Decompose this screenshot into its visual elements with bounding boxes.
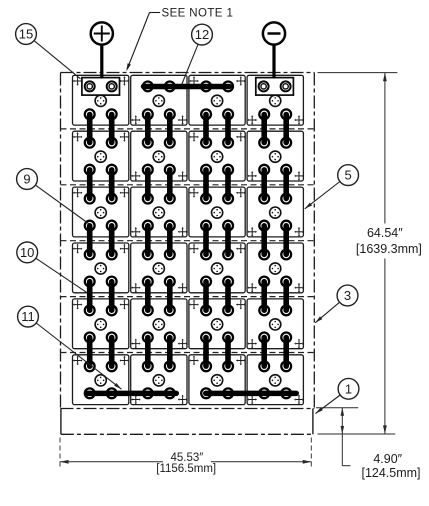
polarity mark + row4 col4 right (294, 283, 304, 293)
polarity mark + row1 col2 left (131, 115, 141, 125)
inter-row connector strap rows2-3 col4 R (281, 165, 291, 204)
balloon callout 11 with leader (18, 306, 122, 389)
polarity mark + row2 col2 left (131, 171, 141, 181)
battery module row3 col3 (189, 187, 245, 237)
svg-text:12: 12 (195, 27, 209, 42)
svg-text:1: 1 (345, 381, 352, 396)
output terminal plate row1 col4 (256, 78, 294, 96)
polarity mark + row3 col3 left (189, 188, 199, 198)
inter-row connector strap rows4-5 col3 L (201, 277, 211, 316)
vent cap row2 col2 (153, 151, 164, 162)
extension line top for 64.54 dimension (318, 72, 398, 74)
positive terminal lead and + symbol (91, 22, 113, 78)
svg-text:64.54″: 64.54″ (367, 226, 403, 240)
svg-text:[1639.3mm]: [1639.3mm] (356, 242, 422, 256)
polarity mark + row2 col3 left (189, 132, 199, 142)
polarity mark + row5 col1 left (73, 300, 83, 310)
battery module row5 col1 (73, 299, 129, 349)
polarity mark + row1 col3 right (236, 76, 246, 86)
polarity mark + row3 col4 right (294, 227, 304, 237)
inter-row connector strap rows2-3 col2 L (143, 165, 153, 204)
inter-row connector strap rows1-2 col2 R (165, 109, 175, 147)
vent cap row1 col1 (95, 95, 106, 106)
battery module row5 col2 (131, 299, 187, 349)
vent cap row4 col4 (270, 263, 281, 274)
inter-row connector strap rows5-6 col3 R (223, 333, 233, 372)
balloon callout 3 with leader (315, 285, 358, 323)
vent cap row5 col3 (212, 319, 223, 330)
inter-row connector strap rows2-3 col3 L (201, 165, 211, 204)
polarity mark + row4 col2 right (178, 283, 188, 293)
battery module row6 col3 (189, 355, 245, 405)
vent cap row1 col4 (270, 95, 281, 106)
polarity mark + row5 col3 left (189, 300, 199, 310)
rack shelf line 5 (dashed) (61, 352, 315, 354)
inter-row connector strap rows5-6 col2 L (143, 333, 153, 372)
vent cap row4 col2 (153, 263, 164, 274)
vent cap row4 col3 (212, 263, 223, 274)
battery module row4 col2 (131, 243, 187, 293)
svg-text:[124.5mm]: [124.5mm] (361, 466, 420, 480)
battery module row6 col1 (73, 355, 129, 405)
svg-text:15: 15 (19, 27, 33, 42)
inter-row connector strap rows3-4 col3 R (223, 221, 233, 260)
polarity mark + row3 col3 right (236, 188, 246, 198)
polarity mark + row2 col1 left (73, 132, 83, 142)
polarity mark + row6 col2 right (178, 395, 188, 405)
polarity mark + row4 col3 right (236, 244, 246, 254)
polarity mark + row3 col2 left (131, 227, 141, 237)
inter-row connector strap rows1-2 col2 L (143, 109, 153, 147)
svg-text:3: 3 (344, 288, 351, 303)
battery cabinet outline top (phantom line) (61, 72, 315, 74)
polarity mark + row1 col4 right (294, 115, 304, 125)
battery module row4 col4 (247, 243, 303, 293)
inter-row connector strap rows5-6 col3 L (201, 333, 211, 372)
vent cap row2 col4 (270, 151, 281, 162)
vent cap row5 col1 (95, 319, 106, 330)
vent cap row5 col4 (270, 319, 281, 330)
vent cap row2 col3 (212, 151, 223, 162)
battery module row6 col2 (131, 355, 187, 405)
polarity mark + row6 col2 left (131, 395, 141, 405)
battery cabinet outline left wall (phantom line) (60, 73, 62, 409)
svg-text:11: 11 (21, 309, 35, 324)
polarity mark + row5 col2 right (178, 339, 188, 349)
polarity mark + row2 col3 right (236, 132, 246, 142)
polarity mark + row2 col4 right (294, 171, 304, 181)
battery module row4 col3 (189, 243, 245, 293)
battery stand left leg (60, 409, 62, 435)
polarity mark + row6 col4 left (247, 395, 257, 405)
polarity mark + row1 col3 left (189, 76, 199, 86)
polarity mark + row3 col2 right (178, 227, 188, 237)
inter-row connector strap rows2-3 col2 R (165, 165, 175, 204)
polarity mark + row6 col3 right (236, 356, 246, 366)
inter-row connector strap rows1-2 col1 L (85, 109, 95, 147)
inter-row connector strap rows3-4 col1 L (85, 221, 95, 260)
battery module row1 col4 (247, 75, 303, 125)
battery module row2 col4 (247, 131, 303, 181)
inter-row connector strap rows1-2 col3 R (223, 109, 233, 147)
battery module row2 col1 (73, 131, 129, 181)
inter-row connector strap rows5-6 col1 R (107, 333, 117, 372)
vent cap row6 col2 (153, 375, 164, 386)
inter-row connector strap rows1-2 col4 R (281, 109, 291, 147)
battery cabinet outline right wall (phantom line) (313, 73, 315, 409)
svg-text:10: 10 (20, 245, 34, 260)
polarity mark + row5 col3 right (236, 300, 246, 310)
polarity mark + row3 col1 left (73, 188, 83, 198)
battery module row2 col2 (131, 131, 187, 181)
inter-row connector strap rows1-2 col1 R (107, 109, 117, 147)
polarity mark + row6 col1 left (73, 356, 83, 366)
row1 inter-module jumper strap (141, 82, 233, 92)
polarity mark + row3 col1 right (120, 188, 130, 198)
vent cap row6 col1 (95, 375, 106, 386)
svg-text:9: 9 (23, 172, 30, 187)
battery module row6 col4 (247, 355, 303, 405)
polarity mark + row1 col1 right (120, 76, 130, 86)
inter-row connector strap rows5-6 col1 L (85, 333, 95, 372)
battery module row3 col2 (131, 187, 187, 237)
battery module row4 col1 (73, 243, 129, 293)
polarity mark + row1 col4 left (247, 115, 257, 125)
inter-row connector strap rows4-5 col1 L (85, 277, 95, 316)
rack shelf line 2 (dashed) (61, 184, 315, 186)
vent cap row3 col2 (153, 207, 164, 218)
vent cap row5 col2 (153, 319, 164, 330)
polarity mark + row6 col1 right (120, 356, 130, 366)
polarity mark + row2 col4 left (247, 171, 257, 181)
rack shelf line 4 (dashed) (61, 296, 315, 298)
balloon callout 5 with leader (305, 165, 359, 209)
vent cap row6 col4 (270, 375, 281, 386)
balloon callout 10 with leader (17, 242, 87, 292)
battery module row3 col1 (73, 187, 129, 237)
polarity mark + row1 col1 left (73, 76, 83, 86)
inter-row connector strap rows1-2 col3 L (201, 109, 211, 147)
battery module row5 col4 (247, 299, 303, 349)
balloon callout 15 with leader (16, 24, 81, 79)
inter-row connector strap rows5-6 col2 R (165, 333, 175, 372)
battery stand right leg (312, 409, 314, 435)
battery module row2 col3 (189, 131, 245, 181)
polarity mark + row5 col4 left (247, 339, 257, 349)
row6 bottom jumper strap left (85, 388, 179, 398)
inter-row connector strap rows4-5 col1 R (107, 277, 117, 316)
inter-row connector strap rows2-3 col1 L (85, 165, 95, 204)
vent cap row1 col3 (212, 95, 223, 106)
svg-text:4.90″: 4.90″ (373, 452, 402, 466)
inter-row connector strap rows2-3 col3 R (223, 165, 233, 204)
polarity mark + row5 col2 left (131, 339, 141, 349)
inter-row connector strap rows3-4 col4 R (281, 221, 291, 260)
battery module row5 col3 (189, 299, 245, 349)
inter-row connector strap rows3-4 col1 R (107, 221, 117, 260)
inter-row connector strap rows3-4 col4 L (259, 221, 269, 260)
inter-row connector strap rows2-3 col1 R (107, 165, 117, 204)
polarity mark + row2 col1 right (120, 132, 130, 142)
polarity mark + row2 col2 right (178, 171, 188, 181)
svg-text:SEE NOTE 1: SEE NOTE 1 (162, 8, 234, 20)
inter-row connector strap rows3-4 col3 L (201, 221, 211, 260)
inter-row connector strap rows3-4 col2 L (143, 221, 153, 260)
output terminal plate row1 col1 (82, 78, 120, 96)
SEE NOTE 1 label and leader arrow (126, 8, 233, 72)
vertical dimension 4.90in / 124.5mm base height (316, 408, 421, 480)
negative terminal lead and - symbol (263, 22, 285, 78)
vent cap row6 col3 (212, 375, 223, 386)
polarity mark + row1 col2 right (178, 115, 188, 125)
balloon callout 12 with leader (182, 24, 213, 85)
inter-row connector strap rows5-6 col4 L (259, 333, 269, 372)
polarity mark + row4 col4 left (247, 283, 257, 293)
polarity mark + row4 col2 left (131, 283, 141, 293)
inter-row connector strap rows1-2 col4 L (259, 109, 269, 147)
inter-row connector strap rows4-5 col2 R (165, 277, 175, 316)
battery module row1 col1 (73, 75, 129, 125)
polarity mark + row6 col4 right (294, 395, 304, 405)
battery cabinet outline bottom / base top (phantom line) (61, 408, 315, 410)
polarity mark + row5 col1 right (120, 300, 130, 310)
svg-text:5: 5 (344, 168, 351, 183)
vent cap row3 col1 (95, 207, 106, 218)
battery stand bottom edge (phantom line) (61, 433, 313, 435)
inter-row connector strap rows4-5 col2 L (143, 277, 153, 316)
balloon callout 9 with leader (17, 169, 89, 224)
battery module row3 col4 (247, 187, 303, 237)
vertical dimension 64.54in / 1639.3mm (356, 73, 422, 434)
rack shelf line 3 (dashed) (61, 240, 315, 242)
battery module row1 col2 (131, 75, 187, 125)
vent cap row4 col1 (95, 263, 106, 274)
svg-text:[1156.5mm]: [1156.5mm] (156, 463, 216, 475)
polarity mark + row3 col4 left (247, 227, 257, 237)
vent cap row3 col4 (270, 207, 281, 218)
inter-row connector strap rows4-5 col3 R (223, 277, 233, 316)
rack shelf line 1 (dashed) (61, 128, 315, 130)
inter-row connector strap rows3-4 col2 R (165, 221, 175, 260)
vent cap row1 col2 (153, 95, 164, 106)
polarity mark + row4 col1 right (120, 244, 130, 254)
vent cap row3 col3 (212, 207, 223, 218)
polarity mark + row4 col1 left (73, 244, 83, 254)
horizontal dimension 45.53in / 1156.5mm (60, 438, 311, 475)
balloon callout 1 with leader (316, 378, 359, 413)
extension/base line bottom for 64.54 dimension (318, 433, 396, 435)
inter-row connector strap rows4-5 col4 R (281, 277, 291, 316)
inter-row connector strap rows4-5 col4 L (259, 277, 269, 316)
polarity mark + row4 col3 left (189, 244, 199, 254)
battery module row1 col3 (189, 75, 245, 125)
row6 bottom jumper strap right (201, 388, 299, 398)
polarity mark + row6 col3 left (189, 356, 199, 366)
inter-row connector strap rows2-3 col4 L (259, 165, 269, 204)
polarity mark + row5 col4 right (294, 339, 304, 349)
vent cap row2 col1 (95, 151, 106, 162)
inter-row connector strap rows5-6 col4 R (281, 333, 291, 372)
